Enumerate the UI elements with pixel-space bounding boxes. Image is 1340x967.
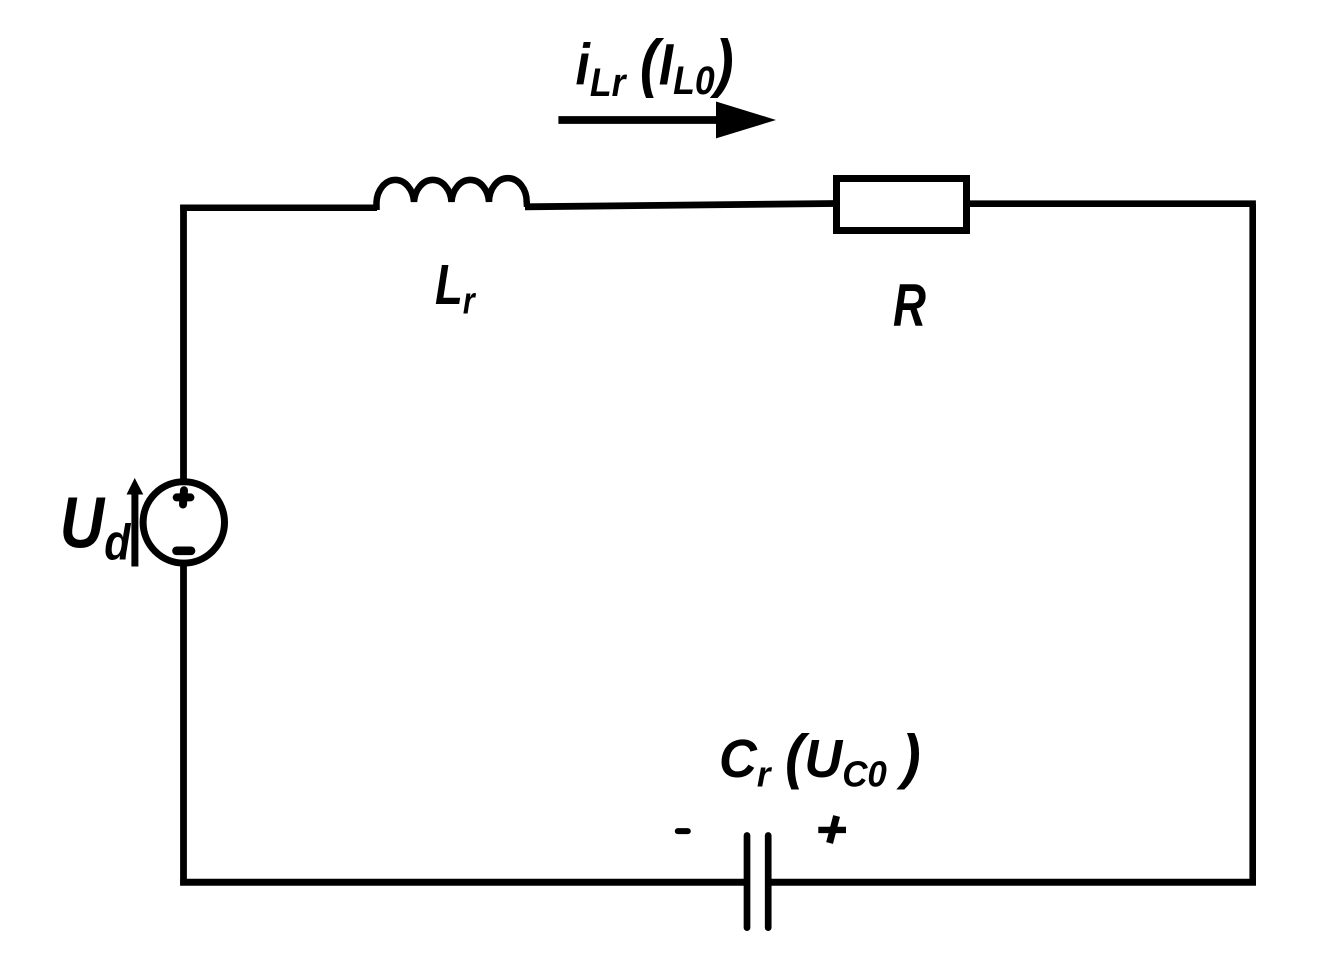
label Ud (60, 483, 132, 570)
voltage source Ud circle (143, 482, 224, 563)
capacitor plus polarity (818, 816, 846, 843)
label R (893, 273, 926, 339)
wire left vertical lower (180, 560, 187, 886)
inductor Lr (377, 178, 528, 210)
capacitor minus polarity (678, 828, 688, 834)
wire left vertical upper (180, 205, 187, 485)
label Cr (UC0) (719, 722, 921, 794)
wire bottom left segment (180, 879, 747, 886)
resistor R (837, 179, 967, 231)
voltage source plus mark (177, 490, 191, 504)
capacitor Cr (747, 836, 768, 928)
label iLr (IL0) (576, 26, 734, 105)
voltage source minus mark (177, 546, 192, 555)
wire top horizontal left segment (184, 208, 378, 211)
current arrow iLr (558, 102, 776, 139)
arrow Ud polarity (127, 478, 144, 567)
wire right vertical (1249, 204, 1256, 886)
wire bottom right segment (768, 879, 1256, 886)
svg-text:Cr (UC0 ): Cr (UC0 ) (719, 722, 921, 794)
svg-text:R: R (893, 273, 926, 339)
label Lr (435, 252, 476, 322)
wire inductor to resistor (525, 204, 836, 207)
wire resistor to top-right corner (966, 200, 1256, 207)
